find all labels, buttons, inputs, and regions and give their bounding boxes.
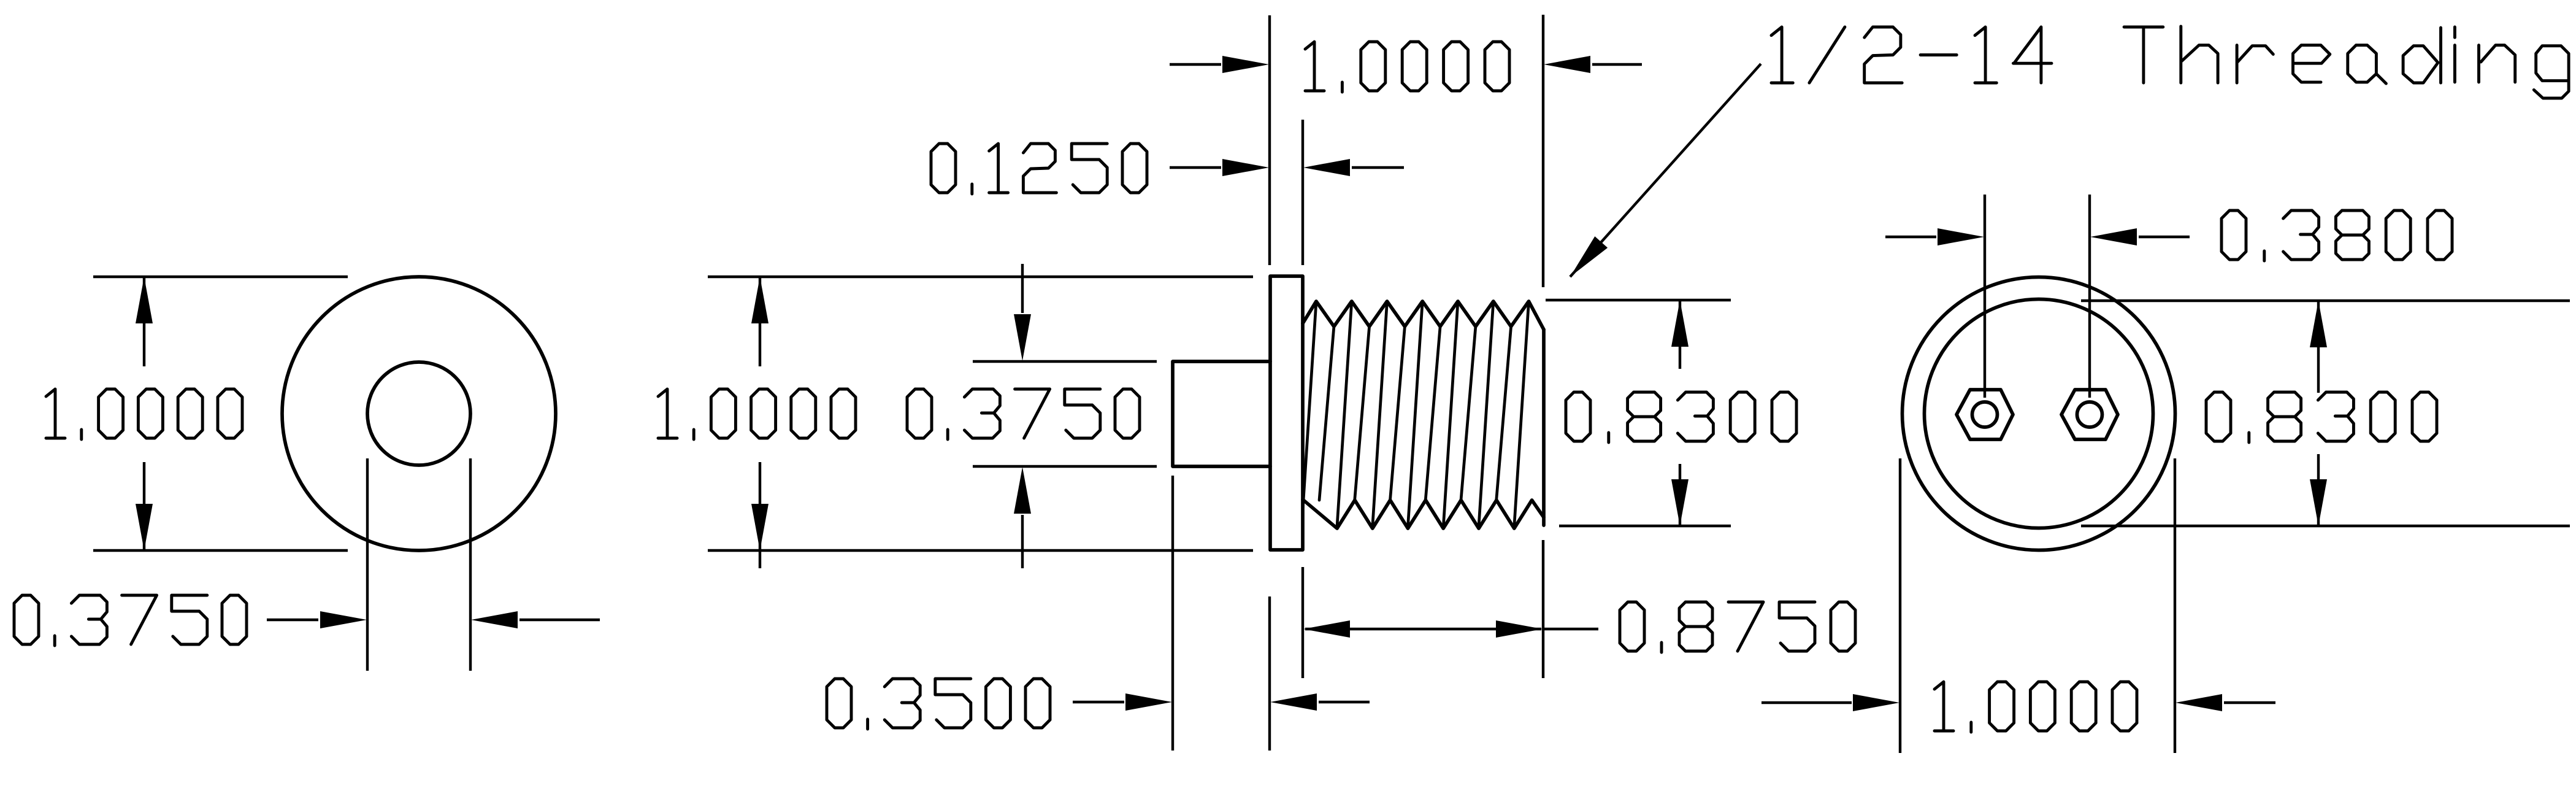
dim 0.8300 right: text	[2206, 392, 2437, 442]
dim 1.0000 right: right arrowhead	[2175, 694, 2222, 711]
dim 0.8750: text	[1620, 602, 1855, 652]
dim 0.3750 middle: upper arrow tail	[1021, 264, 1024, 313]
thread right end edge	[1542, 330, 1546, 525]
left view inner circle (0.3750 dia bore)	[367, 362, 470, 465]
dim 1.0000 middle: upper arrowhead	[751, 277, 769, 323]
dim 1.0000 middle: dimension line lower segment	[759, 462, 761, 568]
dim 0.3750 left: right arrowhead	[471, 611, 518, 628]
dim 0.3750 middle: lower arrow tail	[1021, 515, 1024, 568]
dim 0.1250: right arrowhead	[1303, 159, 1350, 176]
dim 0.1250: right arrow tail	[1352, 166, 1404, 169]
left pin hex and hole	[1957, 390, 2013, 439]
dim 1.0000 left: dimension line upper segment	[143, 278, 145, 366]
dim 0.8300 right: upper arrowhead	[2310, 301, 2327, 347]
dim 0.8300 right: dimension line lower segment	[2317, 454, 2320, 525]
right view inner circle (0.8300 dia)	[1925, 299, 2153, 528]
dim 1.0000 right: left extension line	[1899, 458, 1901, 753]
dim 0.3500: left arrow tail	[1073, 701, 1124, 703]
dim 1.0000 left: dimension line lower segment	[143, 462, 145, 549]
dim 0.8300 middle: top extension line	[1546, 299, 1731, 301]
leader arrowhead	[1570, 236, 1608, 277]
dim 1.0000 left: bottom extension line	[93, 549, 348, 552]
dim 1.0000 top: left extension line (flange face)	[1268, 15, 1271, 265]
dim 0.3750 left: right arrow tail	[519, 619, 600, 621]
dim 0.8300 middle: upper arrowhead	[1671, 300, 1689, 347]
dim 0.3500: right extension line (flange face)	[1268, 596, 1271, 751]
dim 0.8300 middle: dimension line lower segment	[1679, 464, 1681, 525]
middle view flange rectangle	[1270, 276, 1303, 550]
pin 2 center extension line	[2088, 195, 2091, 398]
dim 0.3750 left: left extension line	[366, 458, 369, 671]
dim 0.3750 middle: text	[907, 389, 1140, 439]
dim 1.0000 top: left arrowhead	[1222, 56, 1269, 73]
left view outer circle (1.0000 dia body)	[282, 277, 556, 550]
dim 0.8300 right: dimension line upper segment	[2317, 302, 2320, 393]
pin 1 center extension line	[1984, 195, 1986, 398]
dim 0.3800: right arrowhead	[2090, 228, 2137, 245]
right view outer circle (1.0000 dia)	[1903, 277, 2175, 550]
dim 0.8300 middle: dimension line upper segment	[1679, 301, 1681, 369]
dim 1.0000 right: left arrowhead	[1853, 694, 1899, 711]
dim 1.0000 middle: text	[658, 389, 856, 439]
dim 0.3750 middle: lower arrowhead (up)	[1014, 467, 1031, 514]
dim 1.0000 top: text	[1305, 42, 1509, 92]
dim 0.8300 middle: lower arrowhead	[1671, 479, 1689, 526]
dim 0.3750 middle: bottom extension line	[973, 465, 1157, 468]
middle view shaft stub outline	[1173, 361, 1270, 466]
dim 0.8300 right: bottom extension line	[2081, 525, 2570, 527]
thread bottom crest profile	[1303, 500, 1544, 528]
dim 0.3500: left arrowhead	[1125, 693, 1172, 711]
dim 0.8300 right: top extension line	[2081, 299, 2570, 302]
dim 0.3500: text	[827, 679, 1050, 729]
leader text 1/2-14 Threading	[1771, 26, 2569, 98]
thread flank helix lines	[1303, 301, 1529, 528]
dim 0.1250: text	[931, 144, 1147, 194]
dim 0.8750: right tail to text	[1543, 628, 1598, 630]
dim 0.8750: left arrowhead	[1303, 620, 1350, 638]
dim 0.8750: dimension line	[1305, 628, 1541, 630]
dim 1.0000 left: lower arrowhead	[136, 504, 153, 550]
dim 0.1250: right extension line (flange back face)	[1301, 120, 1304, 265]
dim 0.3500: right arrow tail	[1319, 701, 1370, 703]
dim 0.1250: left arrowhead	[1222, 159, 1269, 176]
dim 0.3750 left: left arrow tail	[267, 619, 318, 621]
thread top crest profile	[1303, 301, 1544, 330]
dim 0.3500: right arrowhead	[1270, 693, 1317, 711]
dim 0.8300 right: lower arrowhead	[2310, 479, 2327, 526]
dim 0.3750 left: right extension line	[469, 458, 472, 671]
dim 1.0000 top: left arrow tail	[1170, 63, 1221, 66]
dim 0.3750 left: left arrowhead	[320, 611, 367, 628]
dim 1.0000 left: top extension line	[93, 276, 348, 278]
dim 0.8300 middle: text	[1566, 392, 1796, 442]
dim 1.0000 middle: bottom extension line	[708, 549, 1253, 552]
dim 1.0000 right: text	[1934, 682, 2137, 732]
dim 0.8750: left extension line	[1301, 567, 1304, 678]
dim 1.0000 right: left arrow tail	[1761, 701, 1852, 704]
dim 0.8300 middle: bottom extension line	[1559, 525, 1731, 527]
dim 1.0000 left: text	[46, 389, 242, 439]
dim 1.0000 top: right arrowhead	[1544, 56, 1590, 73]
dim 0.3800: left arrowhead	[1938, 228, 1984, 245]
dim 0.3500: left extension line (stub face)	[1171, 476, 1174, 751]
dim 0.3800: text	[2221, 210, 2452, 261]
dim 1.0000 right: right arrow tail	[2224, 701, 2275, 704]
dim 0.3750 middle: upper arrowhead (down)	[1014, 314, 1031, 361]
dim 1.0000 right: right extension line	[2174, 458, 2176, 753]
dim 1.0000 middle: dimension line upper segment	[759, 278, 761, 366]
dim 1.0000 top: right arrow tail	[1592, 63, 1642, 66]
dim 0.8750: right arrowhead	[1496, 620, 1543, 638]
dim 0.3750 left: text	[14, 595, 247, 646]
dim 0.3800: left arrow tail	[1885, 236, 1936, 238]
dim 1.0000 middle: top extension line	[708, 276, 1253, 278]
right pin hex and hole	[2061, 390, 2118, 439]
leader line	[1570, 64, 1761, 277]
dim 0.3750 middle: top extension line	[973, 360, 1157, 363]
dim 0.1250: left arrow tail	[1170, 166, 1221, 169]
dim 0.3800: right arrow tail	[2139, 236, 2190, 238]
dim 1.0000 middle: lower arrowhead	[751, 504, 769, 550]
dim 1.0000 left: upper arrowhead	[136, 277, 153, 323]
dim 0.8750: right extension line	[1542, 540, 1544, 678]
dim 1.0000 top: right extension line (thread end)	[1542, 15, 1544, 287]
